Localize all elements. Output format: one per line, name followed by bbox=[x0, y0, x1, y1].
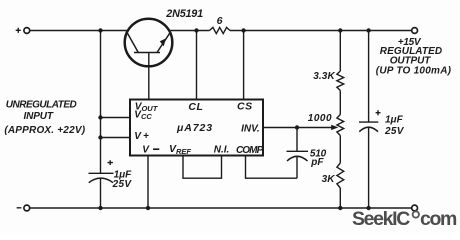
svg-text:SeekIC: SeekIC bbox=[352, 208, 410, 230]
svg-text:μA723: μA723 bbox=[176, 122, 213, 134]
svg-text:CL: CL bbox=[188, 101, 203, 113]
svg-text:25V: 25V bbox=[384, 126, 405, 137]
svg-text:V+: V+ bbox=[134, 131, 151, 142]
svg-text:N.I.: N.I. bbox=[214, 145, 230, 156]
svg-text:COMP: COMP bbox=[236, 145, 264, 156]
svg-text:1μF: 1μF bbox=[385, 114, 404, 125]
svg-text:VCC: VCC bbox=[134, 109, 152, 121]
svg-text:(APPROX. +22V): (APPROX. +22V) bbox=[4, 125, 85, 136]
svg-text:3K: 3K bbox=[322, 174, 336, 185]
svg-text:com: com bbox=[420, 208, 457, 230]
svg-text:pF: pF bbox=[310, 157, 324, 168]
svg-text:25V: 25V bbox=[112, 179, 133, 190]
svg-text:3.3K: 3.3K bbox=[313, 71, 335, 82]
svg-text:INPUT: INPUT bbox=[23, 111, 53, 122]
svg-text:1000: 1000 bbox=[308, 113, 332, 124]
svg-text:2N5191: 2N5191 bbox=[165, 8, 203, 20]
svg-text:6: 6 bbox=[217, 15, 223, 27]
svg-text:UNREGULATED: UNREGULATED bbox=[6, 100, 77, 111]
svg-text:(UP TO 100mA): (UP TO 100mA) bbox=[376, 65, 452, 76]
svg-text:CS: CS bbox=[237, 100, 253, 112]
svg-text:INV.: INV. bbox=[241, 124, 260, 135]
